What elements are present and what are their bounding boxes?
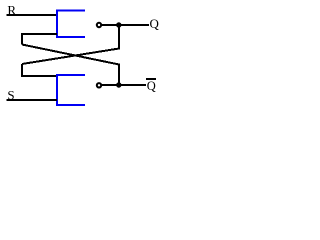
wire U2 upper input feedback bbox=[22, 64, 57, 76]
overline of Qbar bbox=[146, 78, 156, 80]
wire U1 output to Q bbox=[102, 24, 149, 26]
inverter bubble U1 output bbox=[97, 23, 101, 27]
wire diagonal A (Qbar feedback cross to U2 side) bbox=[22, 45, 119, 86]
inverter bubble U2 output bbox=[97, 83, 101, 87]
nand gate U2 (bottom, blue open box) bbox=[57, 75, 85, 105]
svg-text:Q: Q bbox=[147, 79, 156, 93]
wire S input bbox=[7, 99, 58, 101]
wire U1 lower input feedback bbox=[22, 34, 57, 45]
node Q junction dot bbox=[116, 22, 121, 27]
nand gate U1 (top, blue open box) bbox=[57, 11, 85, 38]
node Qbar junction dot bbox=[116, 82, 121, 87]
svg-text:Q: Q bbox=[150, 16, 160, 31]
wire R input bbox=[7, 14, 58, 16]
wire diagonal B (Q feedback cross to U1 side) bbox=[22, 25, 119, 64]
wire U2 output to Qbar bbox=[102, 84, 146, 86]
